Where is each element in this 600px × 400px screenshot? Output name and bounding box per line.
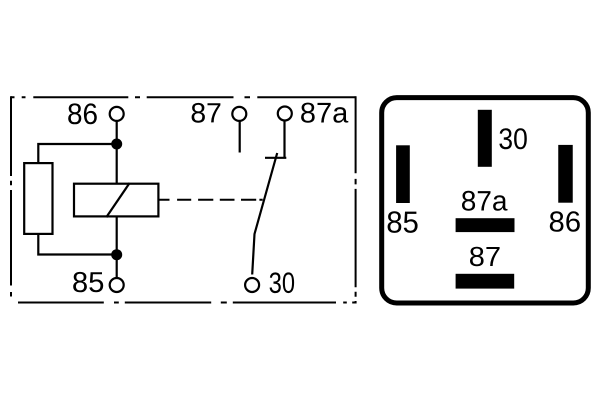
wire stub terminal 87 (239, 121, 241, 153)
wire coil bottom to terminal 85 (116, 216, 118, 277)
wire terminal 87a to fixed contact (283, 121, 285, 158)
terminal 30 circle (245, 278, 259, 292)
socket label 30 (499, 128, 526, 149)
junction node top (111, 139, 122, 150)
label 30 (schematic) (270, 272, 295, 293)
actuation dashed link coil to contact arm (159, 199, 262, 201)
socket label 87 (470, 247, 500, 267)
label 87 (schematic) (192, 103, 221, 123)
socket pin 85 (396, 145, 410, 203)
fixed contact tick 87a (265, 157, 286, 159)
label 86 (schematic) (68, 103, 97, 124)
wire terminal 86 to coil (116, 121, 118, 183)
relay coil box (74, 184, 158, 217)
movable contact arm (30 to 87a, normally closed) (252, 153, 277, 275)
wire resistor bottom to junction (38, 234, 116, 255)
relay enclosure boundary bottom (dash-dot) (18, 302, 356, 304)
resistor (parallel to coil) (24, 163, 52, 234)
socket pin 86 (558, 145, 573, 203)
relay enclosure boundary top (dash-dot) (11, 96, 356, 98)
relay enclosure boundary left (dash-dot) (10, 96, 12, 296)
relay socket body outline (382, 98, 589, 303)
wire junction to resistor top (38, 144, 116, 163)
socket label 87a (462, 191, 508, 211)
socket pin 30 (478, 110, 492, 167)
socket label 86 (550, 211, 580, 232)
relay enclosure boundary right (dash-dot) (355, 96, 357, 303)
socket label 85 (388, 211, 418, 233)
relay coil diagonal (106, 183, 129, 217)
junction node bottom (111, 249, 122, 260)
socket pin 87 (456, 274, 515, 289)
terminal 87 circle (232, 107, 246, 121)
label 85 (schematic) (73, 272, 103, 292)
label 87a (schematic) (301, 103, 348, 123)
terminal 87a circle (278, 107, 292, 121)
terminal 85 circle (110, 278, 124, 292)
socket pin 87a (456, 218, 515, 232)
terminal 86 circle (110, 107, 124, 121)
